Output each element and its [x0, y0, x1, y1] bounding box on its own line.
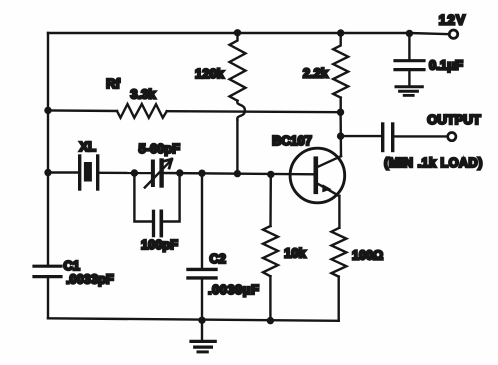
resistor R 120k zigzag: [230, 33, 246, 101]
node M ground: [198, 317, 205, 324]
transistor emitter arrowhead: [322, 184, 331, 192]
crystal XL body: [84, 162, 92, 182]
node F 120k / base line: [234, 170, 241, 177]
crystal XL plates: [78, 156, 81, 189]
resistor 2.2k zigzag: [333, 33, 348, 98]
capacitor 0.1uF lead bottom: [408, 71, 410, 85]
wire output right: [394, 135, 447, 137]
transistor emitter lead: [318, 184, 339, 196]
svg-text:10k: 10k: [284, 246, 306, 261]
capacitor output coupling plates: [381, 124, 384, 151]
wire 100pF loop right: [163, 173, 180, 222]
node G 10k top: [267, 171, 274, 178]
wire crystal to varcap: [99, 172, 150, 175]
wire bottom rail: [48, 318, 339, 321]
wire Rf line left: [48, 109, 117, 112]
capacitor C2 plates: [188, 268, 216, 271]
resistor 100ohm zigzag: [331, 228, 346, 277]
capacitor 5-60pF plates: [151, 162, 155, 186]
capacitor 5-60pF arrow shaft: [145, 162, 170, 188]
capacitor 0.1uF plates: [395, 59, 424, 62]
node E C2 top: [198, 170, 205, 177]
transistor Q1 BC107 circle: [290, 148, 345, 203]
transistor collector lead: [318, 156, 341, 167]
svg-text:100pF: 100pF: [141, 237, 178, 252]
wire 120k to base line: [236, 120, 238, 174]
svg-text:.0039μF: .0039μF: [208, 282, 260, 297]
wire top rail: [48, 33, 449, 34]
wire C2 top lead: [201, 173, 203, 267]
ground under 0.1uF: [396, 85, 422, 88]
node J 0.1uF top rail: [406, 30, 413, 37]
svg-text:(MIN .1k LOAD): (MIN .1k LOAD): [384, 156, 483, 170]
wire varcap to base line: [164, 173, 314, 174]
wire left rail lower: [47, 278, 49, 318]
svg-text:2.2k: 2.2k: [303, 66, 329, 81]
capacitor 5-60pF arrowhead: [163, 159, 172, 168]
wire left rail upper: [47, 33, 49, 265]
transistor base bar: [313, 159, 318, 192]
svg-text:12V: 12V: [439, 13, 467, 28]
svg-text:100Ω: 100Ω: [352, 249, 383, 263]
wire 10k bottom lead: [269, 276, 271, 320]
capacitor 0.1uF lead top: [408, 33, 410, 59]
svg-text:5-60pF: 5-60pF: [139, 141, 180, 156]
node N 10k bottom: [267, 317, 274, 324]
wire 2.2k bottom to Rf node: [340, 98, 342, 113]
capacitor C1 plates: [34, 265, 61, 268]
wire C2 bottom lead: [201, 280, 203, 321]
node I 2.2k top rail: [337, 29, 344, 36]
wire 10k top lead: [269, 174, 272, 226]
node A left rail / Rf: [44, 107, 51, 114]
svg-text:XL: XL: [79, 139, 96, 154]
ground bottom symbol: [191, 340, 215, 343]
resistor 10k zigzag: [263, 226, 278, 276]
svg-text:C2: C2: [210, 251, 226, 266]
node D varcap right: [176, 169, 183, 176]
wire output left: [341, 135, 381, 137]
terminal 12V: [449, 30, 457, 38]
wire crystal line left: [48, 171, 78, 173]
svg-text:.0033pF: .0033pF: [66, 271, 114, 286]
resistor Rf 3.3k zigzag: [117, 104, 167, 118]
svg-text:120k: 120k: [195, 66, 225, 81]
node B left rail / crystal line: [44, 169, 51, 176]
wire emitter down: [338, 196, 340, 228]
node L output: [337, 132, 344, 139]
svg-text:BC107: BC107: [272, 133, 312, 148]
node K 2.2k bottom / Rf: [337, 109, 344, 116]
svg-text:0.1μF: 0.1μF: [429, 58, 463, 73]
node C varcap left: [131, 169, 138, 176]
wire 120k hop over Rf line: [237, 101, 245, 120]
terminal OUTPUT: [448, 133, 456, 141]
svg-text:Rf: Rf: [106, 76, 120, 91]
wire ground stub bottom: [201, 320, 203, 339]
wire 100pF loop left: [134, 173, 151, 222]
wire 100ohm bottom lead: [338, 277, 340, 321]
capacitor 100pF plates: [152, 211, 155, 235]
wire collector rail: [339, 112, 342, 156]
svg-text:OUTPUT: OUTPUT: [427, 112, 481, 127]
svg-text:3.3k: 3.3k: [130, 87, 156, 102]
wire Rf line right: [167, 111, 341, 112]
node H 120k top rail: [234, 29, 241, 36]
